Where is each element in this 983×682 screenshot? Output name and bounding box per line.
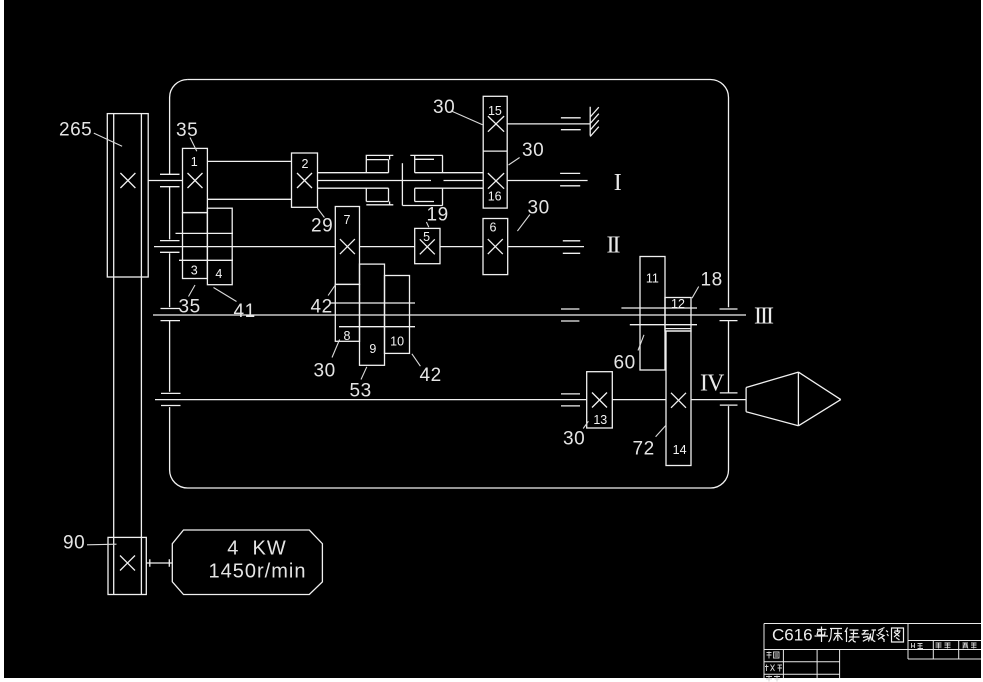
clutch right lower jaw — [402, 188, 442, 205]
svg-text:I: I — [614, 170, 622, 196]
svg-text:4: 4 — [215, 267, 222, 281]
svg-text:60: 60 — [614, 353, 636, 374]
gear 9 — [360, 264, 385, 365]
svg-text:15: 15 — [488, 104, 502, 118]
gear 14 — [665, 329, 691, 466]
pulley 90 — [108, 537, 146, 594]
svg-text:C616: C616 — [772, 626, 813, 645]
bearing shaft IV mid — [561, 394, 580, 406]
label 19 — [426, 205, 448, 228]
svg-text:42: 42 — [420, 365, 442, 386]
svg-text:14: 14 — [673, 443, 687, 457]
gear 1 — [183, 148, 208, 212]
header 数量 — [963, 643, 977, 649]
gear 2 — [292, 153, 318, 207]
clutch shift rod — [401, 163, 403, 205]
label 35 lower — [179, 285, 201, 318]
svg-text:265: 265 — [59, 120, 92, 141]
label 35 top — [176, 120, 198, 151]
svg-text:53: 53 — [350, 381, 372, 402]
label 30 of gear8 — [314, 340, 340, 382]
sleeve gear2-clutch — [318, 173, 389, 189]
header 重量 — [936, 643, 951, 649]
sleeve block8910 — [330, 303, 416, 327]
motor 4KW — [172, 530, 322, 595]
gear 3 — [183, 213, 208, 279]
sleeve gear1-gear2 — [207, 161, 291, 199]
bearing upper output right — [561, 118, 581, 130]
clutch left lower jaw — [366, 188, 393, 205]
svg-text:4 KW: 4 KW — [227, 538, 286, 560]
label 30 top — [433, 97, 483, 125]
TITLE BLOCK — [764, 624, 981, 682]
clutch right upper jaw — [410, 155, 442, 172]
shaft IV — [155, 399, 746, 401]
label 41 — [214, 288, 256, 323]
spindle cone — [746, 372, 841, 426]
svg-text:18: 18 — [701, 270, 723, 291]
shaft III — [153, 314, 746, 316]
bearing shaft IV right wall — [720, 393, 738, 405]
row label 制图 — [767, 652, 780, 659]
gear 12 — [665, 297, 691, 331]
CLUTCH on shaft I — [366, 155, 442, 205]
label 30 mid right — [509, 140, 545, 165]
bearing shaft I left — [160, 174, 180, 186]
gear 5 — [415, 228, 440, 263]
bearing shaft II right — [563, 241, 580, 254]
svg-text:30: 30 — [314, 361, 336, 382]
bearing shaft IV left — [161, 393, 181, 405]
sleeve clutch-gear16 — [415, 173, 484, 189]
svg-text:90: 90 — [63, 533, 85, 554]
svg-text:29: 29 — [311, 216, 333, 237]
svg-text:35: 35 — [176, 120, 198, 141]
sleeve block34 — [176, 233, 234, 260]
label 72 — [633, 425, 667, 460]
label 30 of gear6 — [517, 198, 549, 232]
label 30 of gear13 — [563, 421, 588, 449]
header 比例 — [912, 643, 924, 649]
title hanzi 车床传动系图 — [815, 627, 904, 643]
label 265 — [59, 120, 122, 147]
svg-text:72: 72 — [633, 439, 655, 460]
svg-text:35: 35 — [179, 297, 201, 318]
bearing shaft III right wall — [720, 309, 738, 321]
svg-text:13: 13 — [593, 413, 607, 427]
row label 审核 — [766, 676, 780, 682]
pulley 265 — [107, 114, 148, 277]
gear 8 — [335, 284, 359, 343]
window edge bottom — [0, 678, 983, 682]
svg-text:2: 2 — [302, 157, 309, 171]
label 90 — [63, 533, 117, 554]
gear 6 — [483, 219, 508, 275]
svg-text:II: II — [607, 232, 621, 258]
shaft I — [148, 180, 587, 182]
row label 校对 — [765, 665, 782, 672]
svg-text:III: III — [754, 304, 774, 330]
svg-text:11: 11 — [646, 271, 659, 285]
svg-text:30: 30 — [528, 198, 550, 219]
upper output shaft — [507, 123, 590, 125]
svg-text:3: 3 — [191, 264, 198, 278]
belt — [114, 277, 142, 537]
label 53 — [350, 367, 372, 402]
svg-text:30: 30 — [563, 429, 585, 450]
bearing shaft II left — [160, 241, 180, 253]
label 18 — [692, 270, 723, 299]
svg-text:10: 10 — [390, 335, 404, 349]
wall anchor upper output — [590, 107, 599, 137]
svg-text:9: 9 — [369, 342, 376, 356]
svg-text:12: 12 — [671, 297, 685, 311]
label 42 upper — [311, 285, 336, 318]
bearing shaft III left — [161, 309, 181, 321]
svg-text:30: 30 — [433, 97, 455, 118]
title block frame — [764, 624, 981, 679]
motor shaft — [146, 559, 172, 566]
svg-text:41: 41 — [234, 301, 256, 322]
svg-text:1: 1 — [191, 155, 198, 169]
window edge right — [981, 0, 983, 682]
label 60 — [614, 335, 645, 374]
svg-text:19: 19 — [427, 205, 449, 226]
svg-text:30: 30 — [522, 140, 544, 161]
gear 10 — [385, 276, 410, 354]
gear 7 — [335, 207, 359, 285]
gear 13 — [587, 372, 613, 428]
svg-text:7: 7 — [344, 213, 351, 227]
label 42 lower — [412, 354, 442, 386]
svg-text:1450r/min: 1450r/min — [209, 561, 307, 583]
bearing shaft III mid — [561, 309, 579, 321]
gear block 15 16 — [483, 96, 507, 208]
svg-text:16: 16 — [488, 189, 502, 203]
window edge left — [0, 0, 4, 682]
gear 11 — [640, 257, 665, 371]
gearbox housing rounded frame — [170, 80, 729, 489]
gear 4 — [207, 208, 232, 285]
clutch left upper jaw — [366, 155, 393, 172]
svg-text:6: 6 — [490, 221, 497, 235]
label 29 — [311, 208, 333, 236]
svg-text:IV: IV — [700, 370, 725, 396]
sleeve block1112 — [621, 308, 697, 325]
svg-text:8: 8 — [344, 329, 351, 343]
shaft II — [154, 246, 584, 248]
svg-text:5: 5 — [423, 230, 430, 244]
svg-text:42: 42 — [311, 297, 333, 318]
bearing shaft I right — [560, 173, 580, 185]
